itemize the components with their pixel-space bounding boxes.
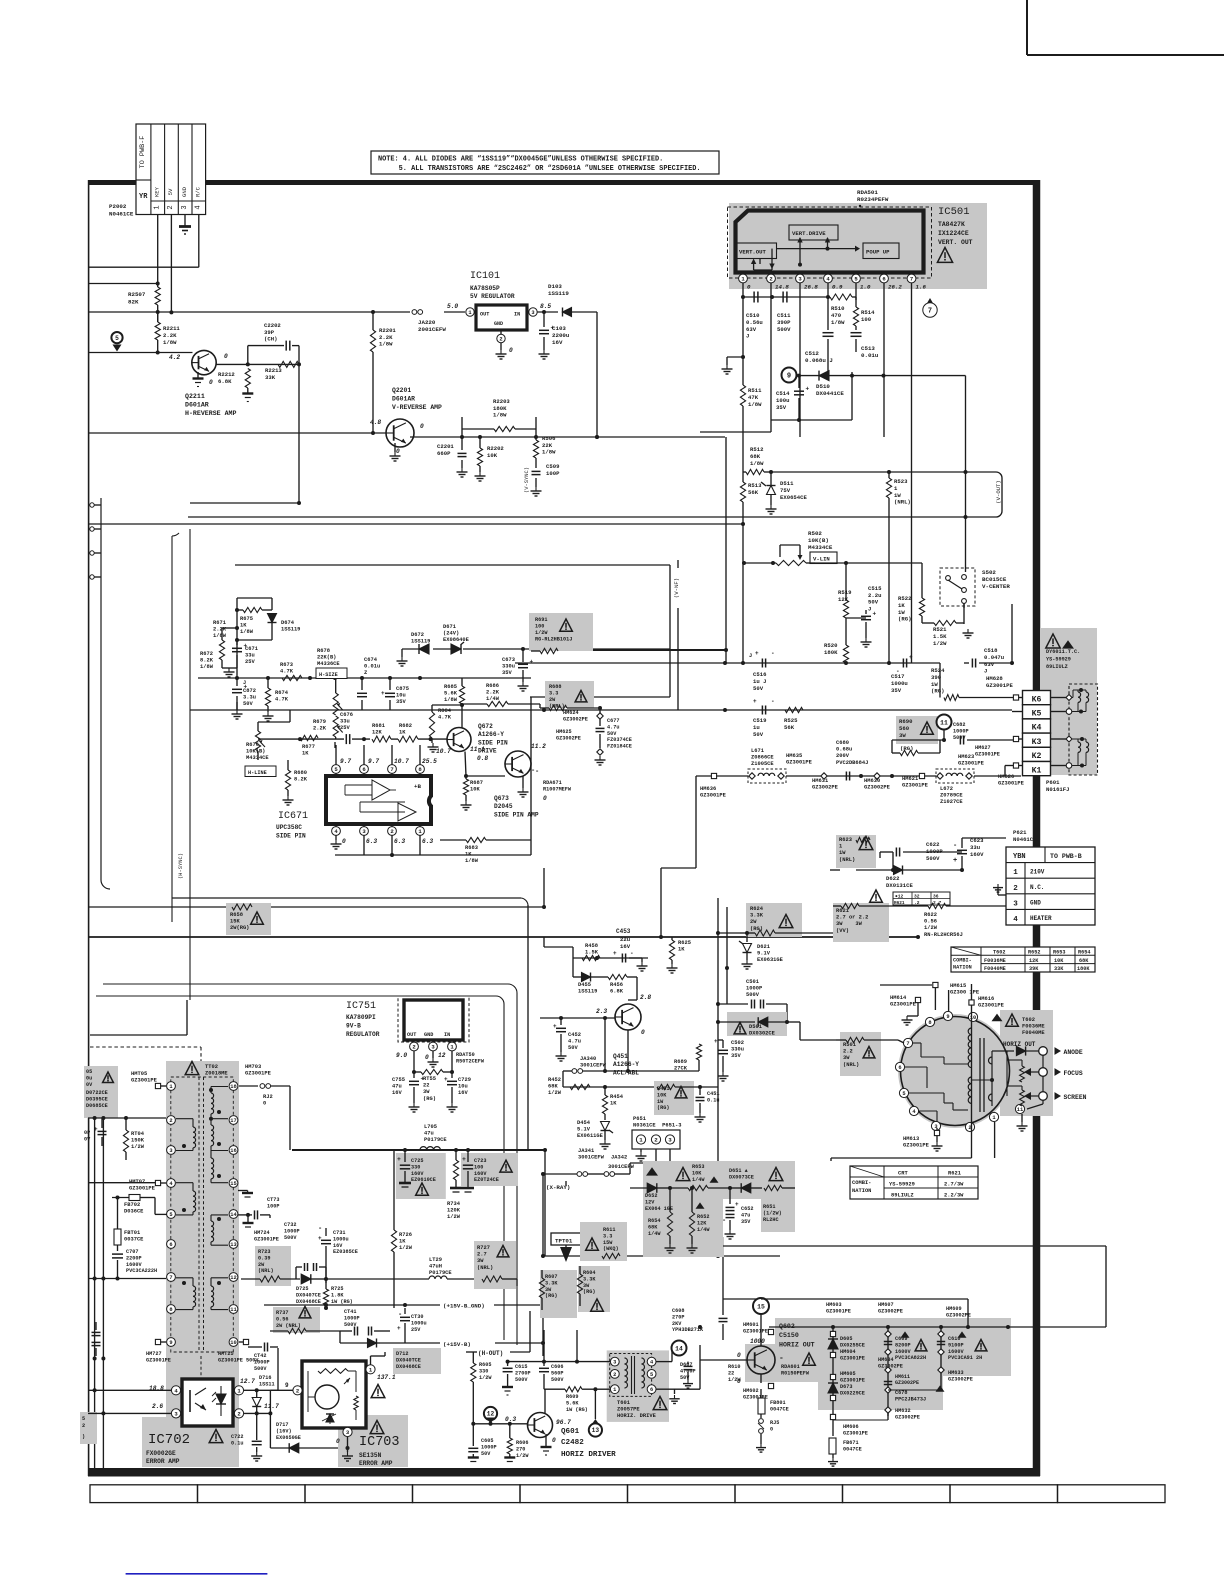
svg-text:35V: 35V	[502, 670, 512, 676]
label S502	[982, 569, 1010, 590]
svg-text:1/2W: 1/2W	[516, 1453, 529, 1459]
svg-text:JA340: JA340	[580, 1056, 596, 1062]
svg-text:IN: IN	[444, 1032, 450, 1038]
diode D672	[411, 632, 430, 654]
svg-text:2: 2	[167, 205, 175, 209]
svg-text:1/8W: 1/8W	[542, 449, 556, 456]
warning R653	[676, 1168, 690, 1181]
svg-text:2: 2	[613, 1372, 616, 1378]
IC751 volts	[396, 1052, 446, 1061]
inductor L671	[748, 748, 786, 783]
pad HM625	[556, 729, 603, 755]
svg-text:HM724: HM724	[254, 1230, 270, 1236]
wire t601 p6	[656, 1325, 702, 1389]
svg-text:2W: 2W	[258, 1262, 265, 1268]
resistor R727 labels	[477, 1245, 509, 1271]
svg-text:GZ3001PE: GZ3001PE	[826, 1308, 851, 1314]
svg-text:HM615: HM615	[950, 983, 966, 989]
capacitor C722 sym	[231, 1434, 262, 1461]
diode D510	[816, 371, 844, 397]
svg-text:3W: 3W	[545, 1287, 552, 1293]
table R621 mini	[893, 892, 950, 906]
svg-text:+: +	[909, 654, 913, 661]
svg-text:C674: C674	[364, 657, 378, 663]
resistor R658	[232, 904, 252, 910]
svg-text:68K: 68K	[1079, 958, 1089, 964]
svg-text:12K: 12K	[697, 1220, 707, 1226]
svg-text:(V-OUT): (V-OUT)	[995, 480, 1002, 504]
wire ct41 d712	[339, 1331, 341, 1343]
svg-text:C875: C875	[396, 686, 409, 692]
svg-text:R723: R723	[258, 1249, 270, 1255]
label T601	[617, 1397, 667, 1420]
svg-text:POUP UP: POUP UP	[866, 249, 890, 256]
svg-text:TT02: TT02	[205, 1064, 218, 1070]
label IC501	[938, 206, 973, 246]
resistor R688 labels	[549, 684, 587, 710]
svg-text:1/8W: 1/8W	[379, 341, 393, 348]
R727 grey box	[474, 1241, 516, 1289]
wire bus y503	[190, 502, 299, 504]
inductor L672	[936, 769, 974, 805]
svg-text:1/2W: 1/2W	[447, 1214, 461, 1220]
svg-text:3: 3	[613, 1360, 616, 1366]
svg-text:+: +	[753, 698, 757, 705]
pin IC101-2	[497, 330, 505, 343]
svg-text:COMBI-: COMBI-	[852, 1180, 871, 1186]
svg-text:Z0789CE: Z0789CE	[940, 793, 963, 799]
svg-text:IN: IN	[514, 312, 520, 318]
svg-text:Q2201: Q2201	[392, 387, 411, 394]
svg-text:R605: R605	[479, 1362, 491, 1368]
svg-text:RJ5: RJ5	[770, 1420, 779, 1426]
svg-text:0047CE: 0047CE	[843, 1446, 862, 1452]
wire x744 524-563	[741, 524, 745, 665]
T601 pins	[610, 1357, 656, 1393]
svg-text:H-SIZE: H-SIZE	[319, 672, 338, 678]
transistor Q2201	[386, 419, 414, 447]
footer revision table	[90, 1485, 1165, 1503]
resistor R737	[270, 1328, 340, 1333]
svg-text:2.8: 2.8	[640, 994, 651, 1001]
TT02 dashed core	[199, 1077, 204, 1464]
jumper JA341	[541, 1164, 635, 1176]
svg-text:3W: 3W	[899, 732, 906, 739]
svg-text:0: 0	[552, 1437, 556, 1444]
capacitor C610	[937, 1331, 987, 1361]
svg-text:0: 0	[509, 347, 513, 354]
wire r676 up	[237, 702, 290, 722]
resistor R623 labels	[839, 837, 873, 863]
svg-text:500V: 500V	[254, 1366, 267, 1372]
TPT01 arrow	[560, 1245, 572, 1262]
jumper RJ5	[758, 1414, 779, 1444]
svg-text:P0179CE: P0179CE	[429, 1270, 452, 1276]
IC671 pins bottom	[332, 827, 425, 836]
resistor R677	[300, 735, 318, 756]
svg-text:8.5: 8.5	[540, 303, 551, 310]
svg-text:L672: L672	[940, 786, 953, 792]
svg-text:1K: 1K	[610, 1101, 617, 1107]
wire y1118	[88, 1116, 166, 1120]
svg-text:●12: ●12	[895, 894, 904, 900]
svg-text:H-LINE: H-LINE	[248, 770, 267, 776]
diode D455	[573, 958, 605, 995]
value 4.8	[370, 419, 381, 426]
svg-text:500V: 500V	[284, 1235, 297, 1241]
svg-text:R604: R604	[583, 1270, 595, 1276]
wire right net down	[297, 364, 301, 505]
svg-text:J: J	[749, 653, 752, 659]
svg-text:PVC2DB684J: PVC2DB684J	[836, 760, 868, 766]
svg-text:P651: P651	[633, 1116, 646, 1122]
svg-text:-: -	[630, 950, 634, 957]
svg-text:(RG): (RG)	[423, 1096, 436, 1102]
svg-text:(RG): (RG)	[657, 1105, 669, 1111]
label V-NF	[673, 578, 680, 598]
ground S502	[963, 629, 974, 638]
TT02 left coil 4-5	[176, 1183, 196, 1215]
svg-text:R686: R686	[486, 683, 499, 689]
wire q451 base	[540, 1016, 633, 1032]
svg-text:R622: R622	[924, 912, 937, 918]
svg-text:CT41: CT41	[344, 1309, 356, 1315]
svg-text:3W: 3W	[843, 1055, 850, 1061]
svg-text:HM606: HM606	[843, 1424, 859, 1430]
svg-text:9.7: 9.7	[340, 758, 351, 765]
svg-text:6.8K: 6.8K	[218, 378, 232, 385]
wire col4 bend	[88, 215, 199, 268]
svg-text:JA342: JA342	[611, 1155, 627, 1161]
svg-text:1/2W: 1/2W	[548, 1090, 562, 1096]
ground RJ5	[756, 1444, 766, 1452]
svg-text:C512: C512	[805, 350, 819, 357]
svg-text:GZ3001PE: GZ3001PE	[978, 1003, 1005, 1009]
ground IC751 gnd	[428, 1051, 439, 1067]
wire d510 right	[852, 375, 966, 377]
wire x543	[517, 1279, 543, 1356]
svg-text:RDAT50: RDAT50	[456, 1052, 475, 1058]
wire bus y678	[198, 676, 531, 680]
amplifier IC703 body	[302, 1361, 366, 1428]
svg-text:17: 17	[230, 1118, 236, 1124]
R737 grey box	[273, 1307, 320, 1333]
capacitor C675	[381, 678, 409, 710]
wire box ic751 inner	[96, 996, 504, 1340]
svg-text:3001CEFW: 3001CEFW	[608, 1164, 635, 1170]
wire ic702 pin2	[244, 1411, 272, 1415]
C705 grey box	[84, 1066, 118, 1118]
wire collector bus y437	[410, 435, 725, 439]
resistor R520	[824, 618, 849, 665]
svg-text:GZ3002PE: GZ3002PE	[948, 1376, 973, 1382]
svg-text:GND: GND	[1030, 900, 1041, 907]
column x888	[885, 1327, 891, 1416]
svg-text:R50T2CEFW: R50T2CEFW	[456, 1058, 485, 1064]
switch S502 box	[940, 568, 975, 606]
wire ic703 pin1	[371, 1352, 386, 1365]
svg-text:47u: 47u	[741, 1212, 750, 1218]
transistor Q602	[747, 1346, 775, 1374]
svg-text:Q673: Q673	[494, 795, 509, 802]
label HM621	[902, 773, 929, 788]
wire bus y937 thick	[88, 935, 920, 939]
pad HM613	[903, 1128, 943, 1151]
value 2.8	[640, 994, 651, 1001]
svg-text:EX0611GE: EX0611GE	[577, 1133, 604, 1139]
R691 grey box	[529, 613, 593, 651]
wire bus y517	[188, 516, 996, 518]
resistor R689	[674, 1044, 702, 1072]
R623 grey box	[836, 835, 876, 868]
pad HMT07	[129, 1179, 166, 1192]
resistor R680	[283, 760, 308, 805]
svg-text:160V: 160V	[970, 851, 984, 858]
diode T602 anode	[992, 1046, 1039, 1055]
label R609	[566, 1394, 588, 1413]
TT02 pin circles	[167, 1082, 238, 1347]
arrow screen	[1055, 1092, 1087, 1101]
svg-text:50V: 50V	[607, 731, 617, 737]
label P651	[633, 1116, 682, 1129]
svg-text:+: +	[530, 659, 534, 666]
label IC671	[276, 811, 308, 840]
svg-text:D501: D501	[749, 1024, 762, 1030]
svg-text:R609: R609	[566, 1394, 578, 1400]
resistor R681	[372, 723, 398, 742]
svg-text:100: 100	[474, 1164, 483, 1170]
svg-text:FB801: FB801	[770, 1400, 786, 1406]
connector stubs left	[90, 503, 101, 579]
wire q601 base	[471, 1422, 527, 1426]
capacitor C671	[232, 640, 258, 668]
svg-text:1SS119: 1SS119	[281, 627, 300, 633]
svg-text:FOCUS: FOCUS	[1064, 1070, 1083, 1077]
yoke H coils	[1073, 688, 1089, 714]
svg-text:P0179CE: P0179CE	[424, 1137, 447, 1143]
svg-text:14.8: 14.8	[775, 284, 789, 291]
wire v-nf	[677, 560, 679, 710]
svg-text:GZ3001PE: GZ3001PE	[254, 1236, 279, 1242]
capacitor C511	[777, 292, 791, 333]
capacitor C607 sym	[656, 1362, 696, 1404]
svg-text:GZ3001PE: GZ3001PE	[700, 793, 727, 799]
svg-text:GND: GND	[424, 1032, 433, 1038]
svg-text:Q2211: Q2211	[185, 393, 205, 400]
svg-text:-: -	[953, 842, 957, 850]
svg-text:12: 12	[487, 1411, 495, 1418]
table combination CRT	[850, 1166, 978, 1199]
svg-text:GZ3001PE: GZ3001PE	[245, 1071, 272, 1077]
diode D673	[828, 1383, 865, 1396]
svg-text:N0461CE: N0461CE	[109, 210, 134, 217]
svg-text:EX0650GE: EX0650GE	[276, 1435, 301, 1441]
svg-text:RN-RL2HCR56J: RN-RL2HCR56J	[924, 932, 963, 938]
svg-text:HM605: HM605	[840, 1371, 856, 1377]
IC671 bottom volts	[342, 838, 433, 845]
svg-text:13: 13	[592, 1427, 600, 1434]
svg-text:LT29: LT29	[429, 1257, 442, 1263]
wire S502 up	[964, 470, 968, 572]
svg-text:CT30: CT30	[411, 1314, 423, 1320]
capacitor C755	[392, 1072, 425, 1112]
label IC751	[346, 1001, 380, 1038]
ground T602	[1017, 1055, 1044, 1131]
resistor R688	[540, 705, 602, 710]
resistor R456a	[582, 943, 600, 961]
svg-text:D036CE: D036CE	[124, 1209, 144, 1215]
label IC702	[146, 1430, 223, 1466]
IC501 internal arrows	[751, 237, 860, 270]
svg-text:2: 2	[169, 1118, 172, 1124]
wire IC101 out right	[537, 310, 558, 314]
svg-text:GZ3001PE: GZ3001PE	[146, 1357, 171, 1363]
svg-text:D674: D674	[281, 620, 295, 626]
svg-text:(RG): (RG)	[898, 616, 911, 623]
svg-text:1/4W: 1/4W	[692, 1177, 705, 1183]
svg-text:HM634: HM634	[878, 1357, 894, 1363]
wire caps row y297	[741, 295, 830, 299]
capacitor C678	[884, 1382, 945, 1403]
svg-text:(NRL): (NRL)	[258, 1268, 274, 1274]
svg-text:47u: 47u	[392, 1084, 402, 1090]
svg-text:3.3u: 3.3u	[243, 695, 256, 701]
resistor R679	[313, 716, 343, 739]
wire x696 down	[695, 776, 697, 868]
warning R621	[870, 890, 883, 902]
svg-text:2.2: 2.2	[843, 1049, 853, 1055]
svg-text:J: J	[984, 668, 987, 675]
resistor R624 labels	[750, 906, 793, 932]
wire q601 up	[544, 1389, 546, 1413]
diode D725	[296, 1274, 326, 1305]
label HM634	[878, 1357, 903, 1369]
capacitor C672	[232, 678, 256, 719]
svg-text:0: 0	[425, 1054, 429, 1061]
svg-text:D717: D717	[276, 1422, 288, 1428]
label HMT25	[218, 1351, 259, 1363]
svg-text:68K: 68K	[648, 1224, 658, 1230]
page corner box top-right	[1027, 0, 1224, 55]
svg-text:50V: 50V	[753, 685, 764, 692]
svg-text:4: 4	[1013, 916, 1018, 924]
svg-text:16: 16	[230, 1148, 236, 1154]
capacitor C674	[357, 657, 380, 710]
label HM632	[833, 1408, 920, 1420]
svg-text:HORIZ DRIVER: HORIZ DRIVER	[561, 1451, 616, 1459]
svg-text:GZ3001PE: GZ3001PE	[903, 1143, 930, 1149]
svg-text:PPC2JB473J: PPC2JB473J	[895, 1396, 926, 1402]
svg-text:D652: D652	[645, 1193, 657, 1199]
capacitor C606	[539, 1362, 564, 1383]
svg-text:D601AR: D601AR	[392, 395, 415, 402]
capacitor C501	[718, 979, 787, 1022]
svg-text:R607: R607	[545, 1274, 557, 1280]
svg-text:-: -	[779, 1354, 784, 1363]
resistor R2203	[462, 398, 536, 437]
svg-text:8.2K: 8.2K	[294, 777, 308, 783]
connector P2002 TO PWB-F table	[136, 124, 206, 215]
svg-text:1/4W: 1/4W	[486, 696, 500, 702]
svg-text:D454: D454	[577, 1120, 591, 1126]
R604 grey box	[578, 1266, 610, 1312]
wire row y745	[258, 737, 433, 741]
optocoupler IC702 internals	[190, 1386, 226, 1416]
svg-text:Z0057PE: Z0057PE	[617, 1407, 640, 1413]
svg-text:HORIZ OUT: HORIZ OUT	[1003, 1041, 1036, 1048]
label P2002	[109, 203, 134, 217]
svg-text:5.1V: 5.1V	[577, 1127, 591, 1133]
wire x756 mid	[755, 856, 757, 868]
resistor R2211	[155, 312, 180, 354]
svg-text:2.3: 2.3	[596, 1008, 607, 1015]
resistor R691	[531, 648, 558, 653]
R607 grey box	[540, 1270, 577, 1318]
svg-text:DRIVE: DRIVE	[478, 748, 497, 755]
svg-text:1/4W: 1/4W	[648, 1231, 661, 1237]
resistor R623	[830, 837, 895, 872]
ground IC101 gnd	[496, 343, 514, 359]
svg-text:EX0631GE: EX0631GE	[757, 957, 784, 963]
svg-text:22K(B): 22K(B)	[317, 655, 336, 661]
pin IC101-3	[529, 308, 537, 316]
ground C677	[595, 756, 606, 765]
wire D103 right	[572, 311, 597, 313]
ground P2002 pin3	[179, 215, 191, 235]
svg-text:5. ALL TRANSISTORS ARE “2SC246: 5. ALL TRANSISTORS ARE “2SC2462” OR “2SD…	[378, 165, 701, 173]
svg-text:1K: 1K	[399, 730, 406, 736]
svg-text:+: +	[953, 857, 957, 865]
svg-text:V-CENTER: V-CENTER	[982, 583, 1010, 590]
svg-text:4: 4	[195, 205, 203, 209]
transistor Q451	[596, 1004, 645, 1036]
wire r675 frame	[235, 598, 272, 678]
svg-text:C725: C725	[411, 1158, 423, 1164]
svg-text:DX0468CE: DX0468CE	[296, 1299, 321, 1305]
grey D652 block	[643, 1161, 795, 1257]
R611 grey box	[580, 1222, 627, 1261]
svg-text:C5150: C5150	[779, 1332, 799, 1339]
T602 internal wires	[905, 1043, 992, 1122]
svg-text:R/C: R/C	[195, 186, 202, 197]
ground C509	[531, 487, 542, 496]
svg-text:GZ3002PE: GZ3002PE	[895, 1414, 920, 1420]
svg-text:25.5: 25.5	[422, 758, 437, 765]
component FB671	[828, 1438, 862, 1466]
label Q2201	[392, 387, 442, 411]
svg-text:4.8: 4.8	[370, 419, 381, 426]
svg-text:HM611: HM611	[895, 1374, 910, 1380]
svg-text:HM604: HM604	[840, 1349, 856, 1355]
svg-text:500V: 500V	[777, 326, 791, 333]
svg-text:R2507: R2507	[128, 291, 146, 298]
pad HM602	[743, 1374, 774, 1400]
svg-text:HM623: HM623	[958, 754, 974, 760]
svg-text:2KV: 2KV	[672, 1321, 682, 1327]
svg-text:6: 6	[898, 1065, 901, 1071]
label V-SYNC	[524, 467, 530, 493]
R690 grey box	[896, 716, 938, 744]
svg-text:4.7K: 4.7K	[438, 715, 452, 721]
svg-text:GZ3001PE: GZ3001PE	[129, 1186, 156, 1192]
capacitor C608	[672, 1299, 761, 1340]
svg-text:9: 9	[946, 1014, 949, 1020]
wire corner x187	[90, 1000, 187, 1035]
svg-text:(+15V-B_GND): (+15V-B_GND)	[443, 1303, 485, 1310]
svg-text:(NRL): (NRL)	[894, 499, 911, 506]
resistor R452	[548, 1077, 590, 1096]
svg-text:1W (RG): 1W (RG)	[331, 1299, 353, 1305]
